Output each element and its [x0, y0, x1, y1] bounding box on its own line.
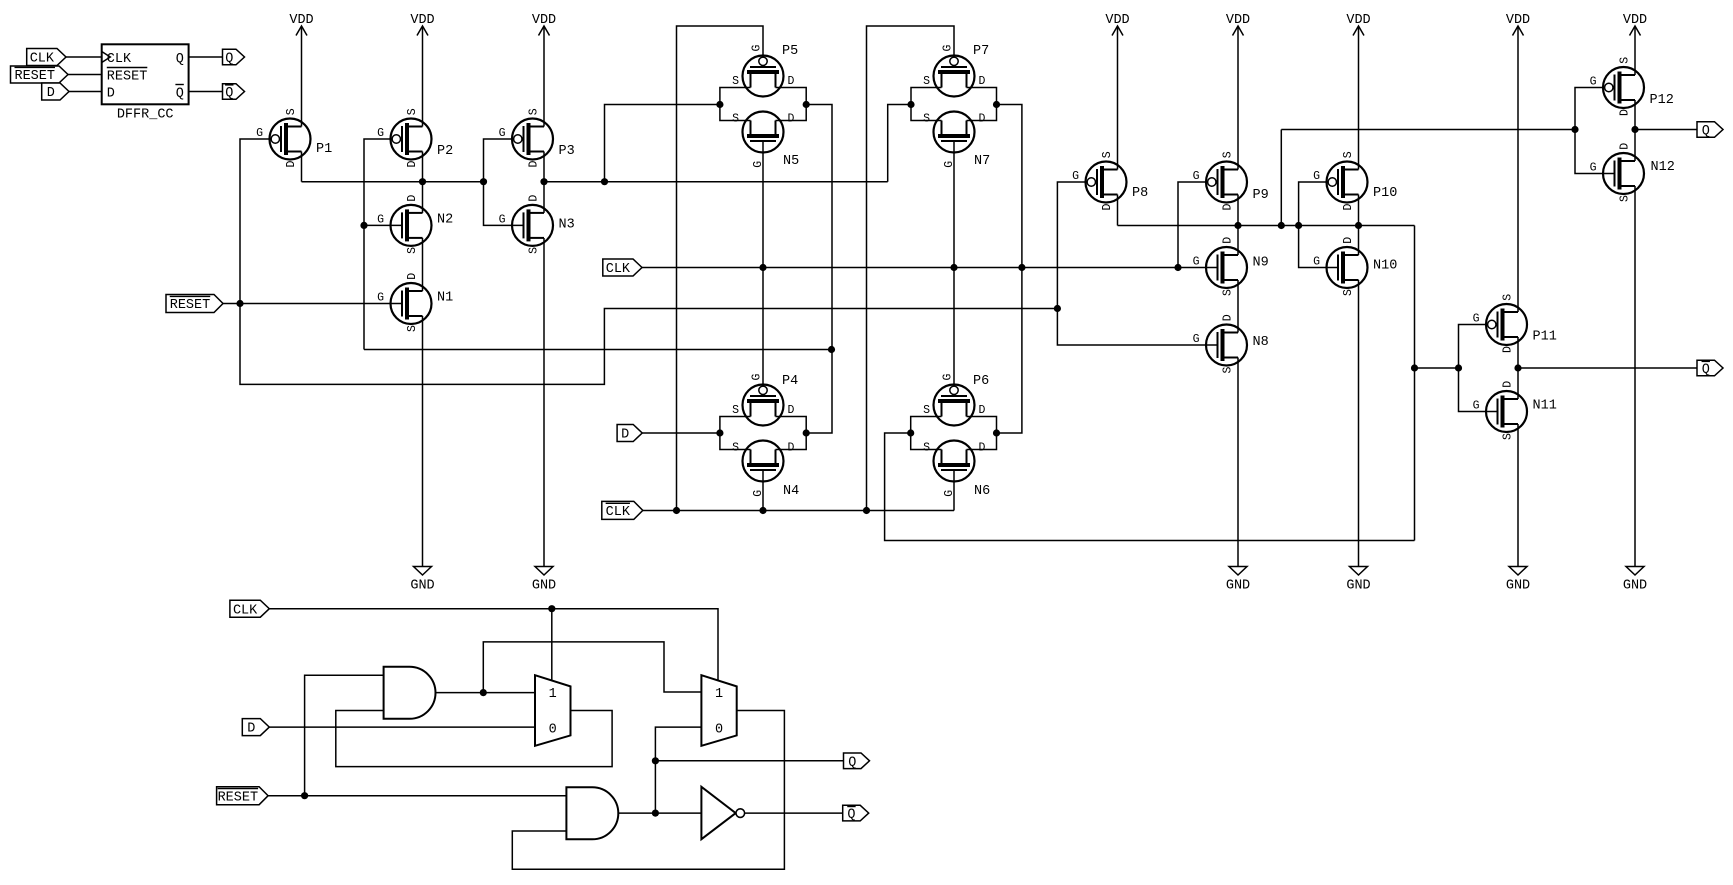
- svg-text:N8: N8: [1253, 335, 1269, 350]
- junction: [652, 810, 659, 817]
- transistor P11: [1473, 294, 1557, 353]
- wire VDD to P9 source: [1237, 26, 1239, 170]
- svg-text:G: G: [1072, 170, 1079, 183]
- wire net inv2 out: [544, 181, 888, 183]
- input flag CLK-bar: [602, 501, 643, 520]
- svg-text:P5: P5: [782, 44, 798, 59]
- svg-text:G: G: [1473, 400, 1480, 413]
- input flag RESET-bar: [166, 295, 223, 314]
- wire TG3 drain bracket: [776, 417, 807, 450]
- transistor N5: [732, 112, 799, 170]
- output flag Q-bar: [1697, 360, 1723, 377]
- junction: [301, 792, 308, 799]
- transistor P9: [1193, 151, 1269, 210]
- svg-text:S: S: [1222, 151, 1235, 158]
- svg-text:Q: Q: [1702, 124, 1710, 139]
- wire inv2 out to TG2 source: [888, 105, 911, 182]
- transistor N10: [1313, 237, 1397, 296]
- wire N1 source to GND: [422, 316, 424, 567]
- wire RESET to A1 input: [305, 675, 384, 796]
- junction: [716, 429, 723, 436]
- svg-text:GND: GND: [532, 579, 556, 594]
- junction: [1278, 222, 1285, 229]
- wire Q input line: [1281, 129, 1575, 131]
- power VDD: [1346, 13, 1370, 36]
- svg-text:1: 1: [715, 687, 723, 702]
- wire A2 out to inverter: [618, 812, 701, 814]
- wire P2/N2 gate tie: [364, 139, 392, 350]
- wire TG4 source to slave vertical: [885, 433, 1415, 541]
- svg-text:N11: N11: [1533, 399, 1557, 414]
- wire N12 drain: [1634, 130, 1636, 162]
- wire CLK-bar riser to P5 gate: [677, 26, 764, 511]
- svg-text:N1: N1: [437, 291, 453, 306]
- mux M2: [701, 675, 736, 746]
- junction: [673, 507, 680, 514]
- transistor N7: [923, 112, 990, 170]
- wire RESET to A2 input: [268, 795, 566, 797]
- svg-text:D: D: [285, 161, 298, 168]
- junction: [950, 264, 957, 271]
- wire P10/N10 gate tie: [1299, 182, 1338, 268]
- wire net inv1 out: [302, 181, 484, 183]
- svg-text:P2: P2: [437, 144, 453, 159]
- transistor P10: [1313, 151, 1397, 210]
- junction: [601, 178, 608, 185]
- svg-text:D: D: [979, 75, 986, 88]
- svg-text:VDD: VDD: [410, 13, 434, 28]
- wire RESET to P1/P8/N8 gates route: [240, 139, 1057, 384]
- wire Q-bar output line: [1518, 367, 1697, 369]
- svg-text:G: G: [1193, 333, 1200, 346]
- wire A2 out to M2 input 0 and Q: [655, 727, 701, 813]
- flip-flop block U1 DFFR_CC: [102, 44, 189, 122]
- inverter U2: [701, 787, 744, 839]
- wire block Q-bar out: [189, 91, 223, 93]
- svg-text:RESET: RESET: [107, 69, 148, 84]
- svg-text:P7: P7: [973, 44, 989, 59]
- mux M1: [535, 675, 571, 746]
- svg-text:N7: N7: [974, 154, 990, 169]
- input flag RESET-bar (block): [11, 66, 69, 84]
- svg-text:D: D: [788, 75, 795, 88]
- wire CLK line: [642, 267, 1218, 269]
- svg-text:D: D: [1222, 314, 1235, 321]
- transistor N3: [499, 195, 575, 254]
- wire M1 out to A1 input: [336, 711, 612, 767]
- transistor P5: [732, 44, 798, 97]
- svg-text:N2: N2: [437, 212, 453, 227]
- svg-text:RESET: RESET: [218, 790, 259, 805]
- wire M2 out to A2 input: [512, 711, 784, 870]
- input flag CLK: [603, 259, 642, 277]
- svg-text:D: D: [528, 161, 541, 168]
- wire N11 drain: [1517, 368, 1519, 399]
- svg-text:Q: Q: [847, 808, 855, 823]
- svg-text:Q: Q: [1702, 363, 1710, 378]
- svg-text:S: S: [528, 108, 541, 115]
- wire VDD to P8 source: [1117, 26, 1119, 170]
- junction: [1054, 305, 1061, 312]
- svg-text:S: S: [406, 247, 419, 254]
- wire N6 gate lead: [953, 470, 955, 511]
- svg-text:S: S: [1222, 367, 1235, 374]
- wire VDD to P10 source: [1358, 26, 1360, 170]
- svg-text:G: G: [1193, 256, 1200, 269]
- svg-text:D: D: [979, 112, 986, 125]
- svg-text:1: 1: [549, 687, 557, 702]
- junction: [480, 178, 487, 185]
- wire TG4 drain bracket: [967, 417, 997, 450]
- wire master node to P2/N2 gates: [364, 349, 832, 351]
- svg-text:G: G: [1473, 313, 1480, 326]
- wire A1 out to M2 input 1: [483, 642, 701, 693]
- transistor P2: [377, 108, 453, 167]
- svg-text:0: 0: [715, 723, 723, 738]
- svg-text:G: G: [1313, 170, 1320, 183]
- junction: [863, 507, 870, 514]
- wire CLK-bar riser to P7 gate: [867, 26, 955, 511]
- svg-text:S: S: [923, 404, 930, 417]
- wire TG3 source bracket: [720, 417, 751, 450]
- svg-text:Q: Q: [225, 86, 233, 101]
- svg-text:D: D: [1619, 109, 1632, 116]
- svg-text:P3: P3: [559, 144, 575, 159]
- svg-text:S: S: [923, 75, 930, 88]
- svg-text:D: D: [1342, 204, 1355, 211]
- svg-text:S: S: [923, 112, 930, 125]
- svg-text:P1: P1: [316, 142, 332, 157]
- svg-text:D: D: [1502, 381, 1515, 388]
- wire CLK to mux M1 select: [551, 609, 553, 681]
- svg-text:VDD: VDD: [1623, 13, 1647, 28]
- wire block Q out: [189, 56, 223, 58]
- and-gate A1: [384, 667, 436, 719]
- svg-text:Q: Q: [176, 52, 184, 67]
- wire slave input rail: [1118, 225, 1415, 227]
- svg-text:VDD: VDD: [289, 13, 313, 28]
- svg-text:D: D: [107, 87, 115, 102]
- svg-text:P10: P10: [1373, 186, 1397, 201]
- svg-text:S: S: [1342, 151, 1355, 158]
- svg-text:N9: N9: [1253, 256, 1269, 271]
- junction: [993, 101, 1000, 108]
- wire N10 drain: [1358, 226, 1360, 256]
- wire CLK to N7/P6 gates: [953, 141, 955, 386]
- wire VDD to P3 source: [543, 26, 545, 127]
- svg-text:CLK: CLK: [107, 52, 132, 67]
- wire P1 drain: [301, 152, 303, 182]
- power VDD: [1226, 13, 1250, 36]
- transistor P4: [732, 374, 798, 426]
- junction: [1174, 264, 1181, 271]
- svg-text:G: G: [377, 213, 384, 226]
- wire CLK to block: [66, 56, 102, 58]
- svg-text:CLK: CLK: [30, 52, 55, 67]
- transistor N8: [1193, 314, 1269, 373]
- svg-text:CLK: CLK: [233, 603, 258, 618]
- wire N4 gate lead: [762, 470, 764, 511]
- junction: [1514, 364, 1521, 371]
- output flag Q (block): [223, 49, 245, 66]
- wire Q output line: [1635, 129, 1697, 131]
- svg-text:GND: GND: [1623, 579, 1647, 594]
- wire P9 drain: [1237, 195, 1239, 226]
- svg-text:S: S: [285, 108, 298, 115]
- svg-text:S: S: [528, 247, 541, 254]
- wire TG1 source bracket: [720, 88, 751, 121]
- output flag Q (gate level): [844, 753, 870, 770]
- svg-text:S: S: [406, 108, 419, 115]
- wire D to M1 input 0: [269, 726, 535, 728]
- wire P8 drain: [1117, 195, 1119, 226]
- junction: [759, 264, 766, 271]
- wire CLK to mux selects: [269, 609, 718, 681]
- svg-text:D: D: [1222, 237, 1235, 244]
- svg-text:DFFR_CC: DFFR_CC: [117, 108, 174, 123]
- wire N8 source to GND: [1237, 358, 1239, 567]
- svg-text:D: D: [406, 161, 419, 168]
- wire TG2 source bracket: [911, 88, 942, 121]
- wire D to block: [69, 91, 102, 93]
- junction: [828, 346, 835, 353]
- junction: [236, 300, 243, 307]
- svg-text:G: G: [1590, 162, 1597, 175]
- svg-text:D: D: [1619, 143, 1632, 150]
- svg-text:0: 0: [549, 723, 557, 738]
- output flag Q-bar (block): [223, 84, 245, 101]
- svg-text:S: S: [1101, 151, 1114, 158]
- svg-text:D: D: [1101, 204, 1114, 211]
- svg-text:P9: P9: [1253, 188, 1269, 203]
- svg-text:S: S: [923, 441, 930, 454]
- svg-text:G: G: [1313, 256, 1320, 269]
- wire P10 drain: [1358, 195, 1360, 226]
- svg-text:G: G: [256, 127, 263, 140]
- svg-text:GND: GND: [410, 579, 434, 594]
- wire N10 source to GND: [1358, 280, 1360, 567]
- svg-text:P6: P6: [973, 374, 989, 389]
- wire A1 out to M1 input 1: [436, 692, 536, 694]
- junction: [759, 507, 766, 514]
- junction: [803, 429, 810, 436]
- transistor N11: [1473, 381, 1557, 440]
- wire N2 source to N1 drain: [422, 238, 424, 291]
- wire Q-bar input line: [1415, 367, 1459, 369]
- svg-text:D: D: [406, 273, 419, 280]
- junction: [803, 101, 810, 108]
- wire P11/N11 gate tie: [1459, 325, 1498, 412]
- wire P12 drain: [1634, 100, 1636, 130]
- svg-text:G: G: [499, 213, 506, 226]
- svg-text:S: S: [1502, 433, 1515, 440]
- transistor N9: [1193, 237, 1269, 296]
- ground GND: [1226, 567, 1250, 594]
- transistor P1: [256, 108, 332, 167]
- ground GND: [410, 567, 434, 594]
- svg-text:S: S: [732, 112, 739, 125]
- svg-text:VDD: VDD: [1226, 13, 1250, 28]
- svg-text:P12: P12: [1650, 93, 1674, 108]
- svg-text:GND: GND: [1506, 579, 1530, 594]
- svg-text:D: D: [1222, 204, 1235, 211]
- svg-text:N12: N12: [1651, 160, 1675, 175]
- junction: [540, 178, 547, 185]
- svg-text:N3: N3: [559, 217, 575, 232]
- wire RESET to P8/N8 gates: [1057, 182, 1217, 345]
- svg-text:S: S: [406, 325, 419, 332]
- svg-text:G: G: [942, 374, 955, 381]
- transistor N12: [1590, 143, 1675, 202]
- svg-text:D: D: [1342, 237, 1355, 244]
- junction: [907, 429, 914, 436]
- svg-text:GND: GND: [1346, 579, 1370, 594]
- ground GND: [1346, 567, 1370, 594]
- svg-text:CLK: CLK: [606, 262, 631, 277]
- wire P3 drain: [543, 152, 545, 182]
- transistor P8: [1072, 151, 1148, 210]
- svg-text:G: G: [377, 292, 384, 305]
- svg-text:VDD: VDD: [532, 13, 556, 28]
- svg-text:D: D: [47, 86, 55, 101]
- svg-text:D: D: [979, 441, 986, 454]
- power VDD: [1623, 13, 1647, 36]
- transistor N6: [923, 441, 990, 500]
- svg-text:Q: Q: [848, 755, 856, 770]
- wire CLK to N5/P4 gates: [762, 141, 764, 386]
- wire VDD to P11 source: [1517, 26, 1519, 312]
- transistor P12: [1590, 57, 1674, 116]
- wire RESET to N1 gate: [223, 303, 402, 305]
- wire N2 gate stub: [364, 224, 402, 226]
- svg-text:N5: N5: [783, 154, 799, 169]
- transistor N2: [377, 195, 453, 254]
- wire RESET to block: [68, 74, 102, 76]
- wire rail to Q inverter input: [1280, 130, 1282, 226]
- svg-text:G: G: [751, 374, 764, 381]
- power VDD: [1506, 13, 1530, 36]
- junction: [716, 101, 723, 108]
- junction: [480, 689, 487, 696]
- junction: [360, 222, 367, 229]
- svg-text:G: G: [942, 45, 955, 52]
- svg-text:S: S: [732, 75, 739, 88]
- svg-text:S: S: [1619, 57, 1632, 64]
- svg-text:G: G: [377, 127, 384, 140]
- wire N12 source to GND: [1634, 186, 1636, 567]
- wire Q line: [655, 760, 843, 762]
- svg-text:CLK: CLK: [606, 505, 631, 520]
- svg-text:N6: N6: [974, 484, 990, 499]
- wire TG2 drain bracket: [967, 88, 997, 121]
- transistor P7: [923, 44, 989, 97]
- svg-text:S: S: [732, 441, 739, 454]
- svg-text:S: S: [1342, 289, 1355, 296]
- junction: [548, 605, 555, 612]
- svg-text:D: D: [788, 441, 795, 454]
- wire TG4 source bracket: [911, 417, 942, 450]
- power VDD: [1105, 13, 1129, 36]
- junction: [993, 429, 1000, 436]
- svg-text:GND: GND: [1226, 579, 1250, 594]
- svg-text:D: D: [247, 722, 255, 737]
- wire N2 drain: [422, 182, 424, 213]
- transistor N1: [377, 273, 453, 332]
- svg-text:G: G: [1193, 170, 1200, 183]
- junction: [907, 101, 914, 108]
- svg-text:VDD: VDD: [1105, 13, 1129, 28]
- wire slave storage node TG2-TG4: [997, 105, 1022, 434]
- svg-text:D: D: [528, 195, 541, 202]
- ground GND: [532, 567, 556, 594]
- wire P3/N3 gate tie: [484, 139, 524, 225]
- junction: [1455, 364, 1462, 371]
- svg-text:RESET: RESET: [170, 298, 211, 313]
- wire N9 source to N8 drain: [1237, 280, 1239, 333]
- wire master storage node TG1-TG3: [806, 105, 832, 434]
- junction: [1234, 222, 1241, 229]
- svg-text:D: D: [788, 112, 795, 125]
- wire D to TG3 source: [642, 432, 720, 434]
- wire CLK-bar line: [643, 510, 954, 512]
- junction: [1631, 126, 1638, 133]
- wire P11 drain: [1517, 337, 1519, 368]
- input flag RESET-bar (gate level): [217, 787, 269, 806]
- svg-text:G: G: [499, 127, 506, 140]
- junction: [1355, 222, 1362, 229]
- junction: [1411, 364, 1418, 371]
- and-gate A2: [566, 787, 618, 839]
- svg-text:N10: N10: [1373, 259, 1397, 274]
- wire N11 source to GND: [1517, 424, 1519, 567]
- junction: [1295, 222, 1302, 229]
- power VDD: [410, 13, 434, 36]
- svg-text:S: S: [1619, 195, 1632, 202]
- wire VDD to P12 source: [1634, 26, 1636, 75]
- ground GND: [1506, 567, 1530, 594]
- wire P2 drain: [422, 152, 424, 182]
- svg-text:VDD: VDD: [1346, 13, 1370, 28]
- transistor P3: [499, 108, 575, 167]
- output flag Q-bar (gate level): [843, 805, 869, 822]
- svg-text:RESET: RESET: [14, 69, 55, 84]
- svg-text:P11: P11: [1533, 330, 1557, 345]
- wire rail to Q-bar inverter vertical: [1414, 226, 1416, 541]
- svg-text:N4: N4: [783, 484, 799, 499]
- svg-text:S: S: [732, 404, 739, 417]
- svg-text:G: G: [751, 45, 764, 52]
- wire N3 drain: [543, 182, 545, 213]
- input flag D: [617, 425, 642, 443]
- junction: [419, 178, 426, 185]
- wire CLK to P9/N9 gates: [1178, 182, 1208, 268]
- transistor N4: [732, 441, 799, 500]
- svg-text:D: D: [621, 428, 629, 443]
- svg-text:D: D: [406, 195, 419, 202]
- svg-text:D: D: [788, 404, 795, 417]
- wire P12/N12 gate tie: [1575, 88, 1615, 174]
- power VDD: [532, 13, 556, 36]
- wire N9 drain: [1237, 226, 1239, 256]
- power VDD: [289, 13, 313, 36]
- junction: [652, 757, 659, 764]
- output flag Q: [1697, 122, 1723, 139]
- wire VDD to P2 source: [422, 26, 424, 127]
- svg-text:G: G: [1590, 76, 1597, 89]
- svg-text:Q: Q: [225, 52, 233, 67]
- ground GND: [1623, 567, 1647, 594]
- junction: [1571, 126, 1578, 133]
